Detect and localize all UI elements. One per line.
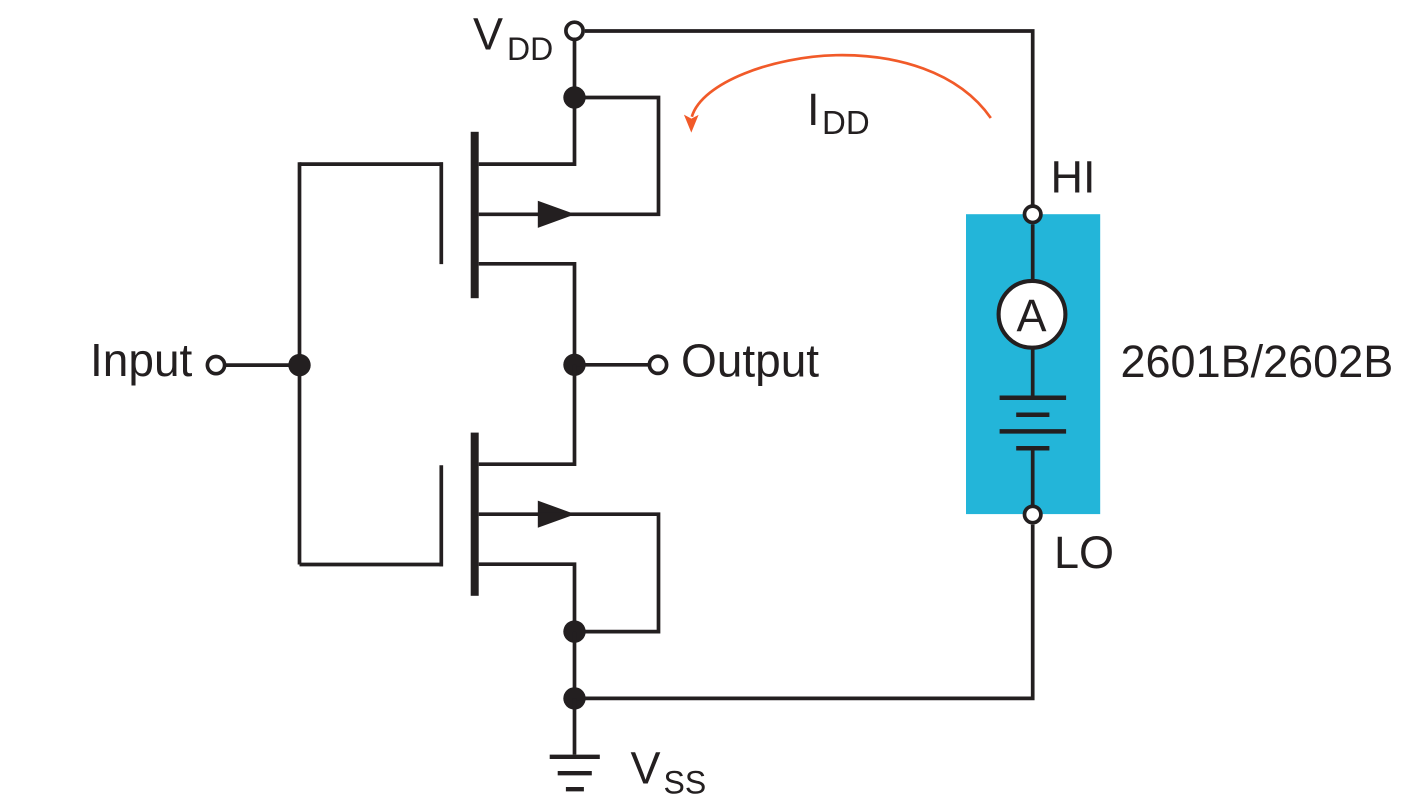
- node N2 (input junction): [288, 354, 310, 376]
- wire node N1 to Q1 source: [479, 95, 575, 164]
- transistor Q1 (PMOS pull-up) channel bar: [471, 132, 479, 298]
- svg-text:LO: LO: [1054, 527, 1114, 578]
- node N5 (VSS junction): [563, 687, 585, 709]
- transistor Q2 gate plate: [439, 465, 443, 566]
- wire node N4 to node N5: [573, 632, 577, 699]
- wire battery to LO terminal: [1031, 448, 1035, 505]
- wire HI terminal to ammeter: [1031, 224, 1035, 282]
- wire node N5 to ground: [573, 698, 577, 754]
- svg-text:2601B/2602B: 2601B/2602B: [1121, 336, 1394, 387]
- wire Q2 source to node N4: [479, 564, 575, 631]
- wire Q1 drain to output node N3: [479, 264, 575, 365]
- svg-text:IDD: IDD: [807, 84, 870, 141]
- wire node N3 to Q2 drain: [479, 365, 575, 464]
- wire ammeter to battery: [1031, 347, 1035, 396]
- current arrow IDD: [684, 55, 991, 132]
- transistor Q1 gate plate: [439, 162, 443, 264]
- transistor Q1 bulk arrow: [538, 201, 575, 228]
- transistor Q2 bulk arrow: [538, 501, 575, 528]
- wire Q2 bulk tie to node N4: [479, 514, 659, 631]
- SMU box 2601B/2602B: [966, 214, 1100, 514]
- wire input rail (vertical): [298, 162, 302, 564]
- ammeter U1: [999, 281, 1066, 348]
- wire input rail to Q1 gate: [300, 162, 444, 166]
- ground: [550, 757, 600, 789]
- wire input rail to Q2 gate: [300, 563, 444, 567]
- wire VDD terminal to node N1: [573, 41, 577, 98]
- svg-text:VSS: VSS: [631, 743, 707, 801]
- svg-text:A: A: [1016, 290, 1046, 341]
- svg-text:Input: Input: [90, 334, 193, 386]
- terminal Input: [207, 357, 224, 374]
- node N1 (VDD junction): [563, 86, 585, 108]
- wire node N1 to Q1 bulk tie: [479, 98, 659, 215]
- svg-text:HI: HI: [1051, 152, 1096, 203]
- node N3 (output junction): [563, 354, 585, 376]
- svg-text:Output: Output: [681, 335, 819, 387]
- node N4 (source junction): [563, 620, 585, 642]
- terminal LO: [1025, 506, 1041, 522]
- terminal VDD: [566, 22, 583, 39]
- transistor Q2 (NMOS pull-down) channel bar: [471, 433, 479, 596]
- wire VDD terminal to HI (top rail): [585, 31, 1033, 205]
- wire node N5 to LO (bottom rail): [575, 525, 1033, 699]
- wire node N3 to Output terminal: [575, 363, 650, 367]
- battery BT1: [1000, 398, 1067, 449]
- svg-text:VDD: VDD: [473, 9, 553, 68]
- terminal HI: [1025, 206, 1041, 222]
- terminal Output: [649, 356, 666, 373]
- wire Input terminal to node N2: [225, 363, 300, 367]
